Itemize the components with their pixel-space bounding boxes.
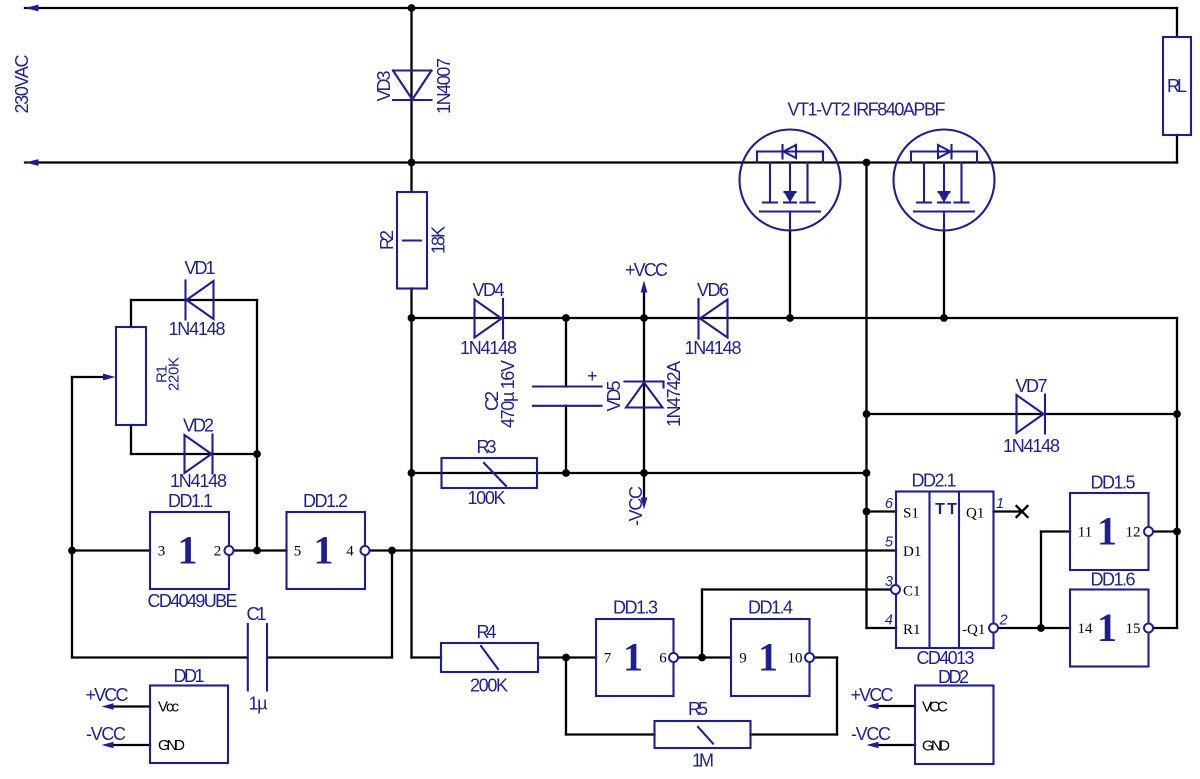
svg-text:3: 3 (158, 544, 166, 560)
svg-text:1N4148: 1N4148 (169, 319, 226, 339)
node top rail / VD3 (408, 4, 416, 12)
power flag -VCC (mid) (626, 486, 647, 526)
svg-text:DD1.1: DD1.1 (168, 491, 213, 511)
svg-text:+VCC: +VCC (625, 260, 668, 280)
node DD1.3 out (698, 654, 706, 662)
svg-text:1: 1 (1097, 605, 1117, 650)
wire DD1.3 junction up (701, 590, 703, 658)
svg-text:1N4148: 1N4148 (460, 338, 517, 358)
svg-text:1: 1 (1097, 509, 1117, 554)
capacitor C1 1µ (247, 604, 268, 714)
svg-text:VD6: VD6 (697, 280, 729, 300)
wire DD1.6 out (1153, 627, 1177, 629)
diode VD4 1N4148 (460, 280, 517, 358)
gate DD1.6 (inverter) (1070, 570, 1153, 667)
svg-text:1N4742A: 1N4742A (664, 361, 684, 427)
power block DD1 (86, 666, 229, 763)
svg-text:R5: R5 (688, 699, 708, 719)
wire DD1.2 out to D1 (370, 549, 896, 551)
diode VD2 1N4148 (170, 416, 227, 492)
diode VD7 1N4148 (1003, 376, 1060, 456)
svg-text:DD1.2: DD1.2 (303, 491, 348, 511)
node rail2 / VD3-R2 (408, 159, 416, 167)
svg-text:VD1: VD1 (185, 258, 216, 278)
resistor RL (1163, 37, 1191, 135)
svg-text:9: 9 (739, 651, 747, 667)
svg-text:+VCC: +VCC (86, 685, 129, 705)
svg-text:10: 10 (788, 651, 803, 667)
svg-text:C1: C1 (903, 584, 921, 600)
node DD1.1 out / DD1.2 in (253, 547, 261, 555)
node S1 (863, 508, 871, 516)
wire VD2 junction down (256, 454, 258, 551)
flip-flop DD2.1 CD4013 (885, 471, 1008, 669)
wire -VCC rail (412, 472, 867, 474)
wire R1 bottom stub (130, 425, 132, 454)
node DD1.2 out (388, 547, 396, 555)
svg-text:5: 5 (294, 544, 302, 560)
wire C2 bottom stub (565, 406, 567, 473)
svg-text:230VAC: 230VAC (12, 55, 32, 114)
transistor VT2 IRF840APBF (894, 130, 995, 231)
wire DD1.4 out (814, 656, 837, 658)
wire DD1.5 out (1153, 530, 1177, 532)
wire DD1 GND pin (112, 744, 150, 746)
svg-text:Q1: Q1 (966, 506, 984, 522)
svg-text:T: T (947, 501, 957, 518)
wire R4 junction down to R5 (565, 658, 567, 735)
wire to C1 pin of DD2.1 (702, 588, 891, 590)
wire RL bottom stub (1176, 135, 1178, 163)
zener diode VD5 1N4742A (604, 361, 684, 427)
node +VCC rail / R2 (408, 314, 416, 322)
svg-text:D1: D1 (903, 544, 921, 560)
wire C1 left (72, 656, 247, 658)
svg-text:220K: 220K (166, 357, 183, 391)
node AC line 2 arrow (25, 159, 39, 166)
wire big middle vertical (865, 163, 867, 629)
svg-text:12: 12 (1126, 525, 1141, 541)
gate DD1.1 (inverter) (148, 491, 238, 611)
wire -Q1 out (998, 627, 1070, 629)
wire +VCC arrow stub (643, 290, 645, 318)
wire DD1.4 out down (836, 658, 838, 735)
wire R2 bottom stub (410, 289, 412, 319)
svg-text:DD1.4: DD1.4 (748, 598, 793, 618)
svg-text:GND: GND (922, 738, 950, 755)
svg-text:+: + (587, 366, 598, 386)
resistor R3 100K (442, 437, 538, 508)
wire -VCC arrow stub (643, 473, 645, 499)
wire VD7 row (867, 413, 1178, 415)
node -VCC rail / VD5 (640, 469, 648, 477)
svg-text:GND: GND (158, 737, 185, 754)
svg-text:1: 1 (314, 528, 334, 573)
svg-text:1N4148: 1N4148 (170, 471, 227, 491)
node DD1.1 input (68, 547, 76, 555)
resistor R5 1M (655, 699, 751, 771)
node -VCC rail / C2 (562, 469, 570, 477)
node -VCC rail / R3 (408, 469, 416, 477)
node VD2 cathode (253, 450, 261, 458)
wire S1 stub (867, 510, 897, 512)
resistor R2 18K (377, 192, 449, 289)
node +VCC rail / C2 (562, 314, 570, 322)
wire DD1.3 out to DD1.4 (678, 656, 731, 658)
svg-text:2: 2 (214, 544, 222, 560)
svg-text:R4: R4 (477, 622, 497, 642)
svg-text:6: 6 (885, 496, 894, 512)
wire to DD1.5 input (1041, 530, 1070, 532)
svg-text:RL: RL (1167, 76, 1187, 96)
wire left vertical (71, 377, 73, 658)
svg-text:1µ: 1µ (249, 694, 268, 714)
svg-text:VD3: VD3 (374, 71, 394, 102)
gate DD1.4 (inverter) (731, 598, 814, 697)
svg-text:6: 6 (659, 651, 667, 667)
svg-text:+VCC: +VCC (851, 685, 894, 705)
gate DD1.2 (inverter) (287, 491, 370, 589)
svg-text:1N4148: 1N4148 (685, 338, 742, 358)
svg-text:R2: R2 (377, 230, 397, 250)
wire mid vertical 318-473 (410, 318, 412, 473)
diode VD3 1N4007 (374, 58, 454, 114)
power block DD2 (851, 667, 994, 764)
svg-text:DD1.6: DD1.6 (1091, 570, 1136, 590)
wire -Q1 junction up (1040, 532, 1042, 629)
svg-text:R1: R1 (903, 622, 921, 638)
svg-text:2: 2 (999, 613, 1008, 629)
svg-text:4: 4 (346, 544, 354, 560)
wire DD1.2 junction down (391, 551, 393, 658)
svg-text:470µ 16V: 470µ 16V (498, 360, 518, 428)
wire C2 top stub (565, 318, 567, 387)
wire gate lead VT2 (943, 231, 945, 319)
svg-text:CD4013: CD4013 (917, 648, 975, 668)
wire VD1 right vertical (256, 300, 258, 454)
node VD7 row right (1173, 410, 1181, 418)
resistor R4 200K (441, 622, 538, 696)
node +VCC rail / VD5 (640, 314, 648, 322)
wire VD1 row (131, 299, 257, 301)
wire mid vertical 473-657 (410, 473, 412, 658)
svg-text:S1: S1 (903, 506, 919, 522)
svg-text:-VCC: -VCC (851, 724, 891, 744)
svg-text:R3: R3 (477, 437, 497, 457)
svg-text:18K: 18K (429, 226, 449, 254)
svg-text:11: 11 (1078, 525, 1092, 541)
diode VD6 1N4148 (685, 280, 742, 358)
svg-text:1M: 1M (692, 751, 714, 771)
svg-text:-VCC: -VCC (86, 724, 126, 744)
gate DD1.5 (inverter) (1070, 473, 1153, 571)
wire right vertical to gates outputs (1176, 318, 1178, 628)
svg-text:DD2.1: DD2.1 (912, 471, 957, 491)
svg-text:Vcc: Vcc (158, 699, 180, 716)
wire VD3 branch vertical (410, 8, 412, 192)
node R4 / DD1.3 in (562, 654, 570, 662)
svg-text:DD1.3: DD1.3 (613, 598, 658, 618)
svg-text:VD7: VD7 (1016, 376, 1048, 396)
wire VD2 row (131, 453, 257, 455)
svg-text:DD1.5: DD1.5 (1091, 473, 1136, 493)
svg-text:DD1: DD1 (174, 666, 205, 686)
svg-text:15: 15 (1126, 621, 1141, 637)
svg-text:VD4: VD4 (473, 280, 505, 300)
wire R5 left (566, 733, 655, 735)
wire R1 pin stub (867, 627, 897, 629)
transistor VT1 IRF840APBF (740, 130, 841, 231)
wire DD1.1 out to DD1.2 (234, 549, 286, 551)
svg-text:-VCC: -VCC (626, 486, 646, 526)
wire DD1 Vcc pin (112, 705, 150, 707)
svg-text:CD4049UBE: CD4049UBE (148, 591, 238, 611)
node rail2 / big vertical (863, 159, 871, 167)
svg-text:100K: 100K (468, 488, 506, 508)
svg-text:VCC: VCC (922, 699, 948, 716)
wire R4 to DD1.3 (538, 656, 596, 658)
capacitor C2 470µ 16V (482, 360, 602, 428)
svg-text:7: 7 (604, 651, 612, 667)
wire second AC rail (25, 161, 1177, 163)
svg-text:3: 3 (885, 574, 893, 590)
svg-text:VT1-VT2 IRF840APBF: VT1-VT2 IRF840APBF (788, 100, 946, 120)
node VD7 row left (863, 410, 871, 418)
wire DD2 VCC pin (877, 705, 915, 707)
wire Q1 out (994, 510, 1023, 512)
gate DD1.3 (inverter) (596, 598, 678, 697)
wire R1 top stub (130, 300, 132, 327)
wire DD2 GND pin (877, 744, 915, 746)
wire RL top stub (1176, 8, 1178, 37)
wire +VCC rail (412, 317, 1178, 319)
svg-text:C1: C1 (247, 604, 267, 624)
power flag +VCC (625, 260, 668, 293)
svg-text:1: 1 (996, 496, 1004, 512)
node DD1.5 out (1173, 528, 1181, 536)
svg-text:14: 14 (1078, 621, 1094, 637)
wire VD5 vertical (643, 318, 645, 473)
potentiometer R1 220K (103, 327, 183, 425)
svg-text:VD5: VD5 (604, 381, 624, 412)
wire R1 wiper arrow lead (72, 376, 110, 378)
node -Q1 / DD1.6 in (1037, 624, 1045, 632)
svg-text:T: T (935, 501, 945, 518)
svg-text:1: 1 (178, 528, 198, 573)
svg-text:-Q1: -Q1 (962, 622, 985, 638)
svg-text:1: 1 (758, 635, 778, 680)
wire top AC rail (25, 7, 1177, 9)
svg-text:1: 1 (623, 635, 643, 680)
svg-text:1N4007: 1N4007 (434, 58, 454, 114)
wire to R4 left (412, 656, 442, 658)
svg-text:200K: 200K (470, 676, 508, 696)
wire gate lead VT1 (789, 231, 791, 319)
node +VCC rail / gate VT1 (786, 314, 794, 322)
wire C1 right (267, 656, 392, 658)
svg-text:DD2: DD2 (938, 667, 969, 687)
diode VD1 1N4148 (169, 258, 226, 339)
node -VCC rail / big vertical (863, 469, 871, 477)
node AC line 1 arrow (25, 5, 39, 12)
svg-text:4: 4 (885, 613, 893, 629)
svg-text:1N4148: 1N4148 (1003, 436, 1060, 456)
no-connect X on Q1 (1017, 506, 1028, 517)
svg-text:5: 5 (885, 535, 894, 551)
svg-text:VD2: VD2 (183, 416, 214, 436)
node +VCC rail / gate VT2 (940, 314, 948, 322)
wire R5 right (751, 733, 838, 735)
wire DD1.1 input (72, 549, 150, 551)
